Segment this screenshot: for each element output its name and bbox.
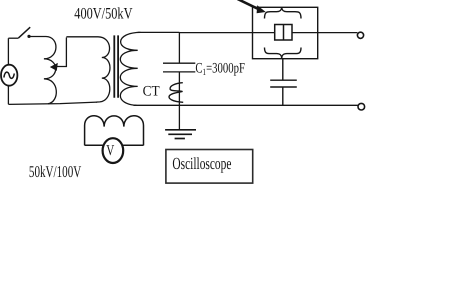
svg-text:Oscilloscope: Oscilloscope — [172, 154, 231, 173]
svg-text:50kV/100V: 50kV/100V — [29, 162, 81, 181]
svg-text:CT: CT — [143, 84, 160, 100]
svg-text:400V/50kV: 400V/50kV — [74, 6, 133, 23]
svg-text:C1=3000pF: C1=3000pF — [195, 60, 245, 77]
svg-text:V: V — [106, 143, 114, 159]
